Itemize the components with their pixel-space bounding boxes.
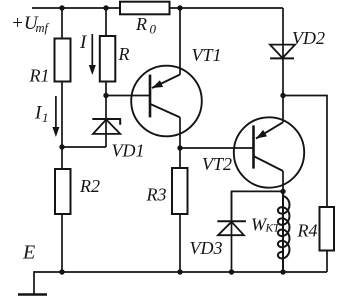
resistor R3: [172, 168, 188, 214]
current arrow I: [89, 34, 96, 75]
svg-text:VT2: VT2: [202, 154, 232, 174]
node dot bottom rail R2: [59, 269, 64, 274]
wire R bottom to base node: [105, 82, 107, 96]
svg-text:R2: R2: [79, 176, 100, 196]
transistor VT2: [234, 117, 304, 187]
wire R1 bottom to node A: [61, 82, 63, 148]
wire VD1 anode elbow left to node A: [61, 146, 106, 148]
svg-text:R: R: [118, 44, 130, 64]
node dot rail/VT1 emitter: [177, 5, 182, 10]
svg-text:R4: R4: [297, 220, 318, 240]
node dot A R1/VD1/R2: [59, 144, 64, 149]
diode VD2: [270, 45, 295, 59]
wire VT1 collector down to node B: [179, 117, 181, 148]
resistor R4: [320, 207, 335, 251]
resistor R: [100, 36, 116, 82]
wire VT2 collector up to node C: [282, 96, 284, 123]
wire base node down through VD1 to elbow: [105, 96, 107, 148]
resistor R2: [55, 169, 71, 214]
ground: [18, 293, 47, 295]
resistor R0: [120, 2, 170, 15]
wire node B to R3: [179, 148, 181, 168]
node dot C VD2/VT2/R4: [280, 93, 285, 98]
svg-text:1: 1: [42, 110, 49, 125]
wire R4 to bottom rail: [326, 251, 328, 273]
transistor VT1: [131, 66, 202, 137]
node dot rail/R1: [59, 5, 64, 10]
wire VD2 branch from top rail down to node C: [282, 8, 284, 96]
node dot base node of VT1: [103, 93, 108, 98]
wire R3 to bottom rail: [179, 214, 181, 272]
wire ground stub: [33, 272, 35, 295]
wire node B to VT2 base: [180, 147, 254, 149]
wire R1 branch from rail: [61, 8, 63, 39]
wire VT1 emitter to top rail: [179, 8, 181, 75]
svg-text:0: 0: [150, 22, 157, 37]
svg-text:VD3: VD3: [190, 238, 223, 258]
node dot bottom rail coil: [280, 269, 285, 274]
resistor R1: [55, 39, 71, 82]
wire node C right to R4 branch: [283, 96, 327, 208]
node dot D VT2 emitter: [280, 189, 285, 194]
diode VD3: [217, 221, 246, 235]
wire node D left and down to VD3: [232, 191, 284, 221]
current arrow I1: [52, 96, 59, 137]
wire R2 to bottom rail: [61, 214, 63, 272]
svg-text:R: R: [135, 14, 147, 34]
inductor WKT coil: [278, 191, 290, 272]
svg-text:VD1: VD1: [112, 141, 145, 161]
node dot rail/R: [103, 5, 108, 10]
node dot B VT1 collector: [177, 145, 182, 150]
wire VD3 through to bottom rail: [231, 191, 233, 272]
svg-text:R1: R1: [29, 65, 50, 85]
svg-text:VT1: VT1: [192, 45, 222, 65]
wire node A to R2: [61, 147, 63, 169]
wire bottom rail: [34, 271, 327, 273]
svg-text:VD2: VD2: [292, 28, 325, 48]
wire R branch from rail: [105, 8, 107, 36]
svg-text:KT: KT: [265, 223, 282, 235]
wire top supply rail: [32, 7, 283, 9]
svg-text:mf: mf: [36, 21, 50, 35]
zener diode VD1: [92, 119, 121, 134]
svg-text:R3: R3: [146, 185, 167, 205]
node dot bottom rail VD3: [229, 269, 234, 274]
node dot bottom rail R3: [177, 269, 182, 274]
wire VT1 base lead: [106, 95, 150, 97]
wire VT2 emitter down to node D: [282, 171, 284, 191]
svg-text:E: E: [22, 242, 35, 264]
